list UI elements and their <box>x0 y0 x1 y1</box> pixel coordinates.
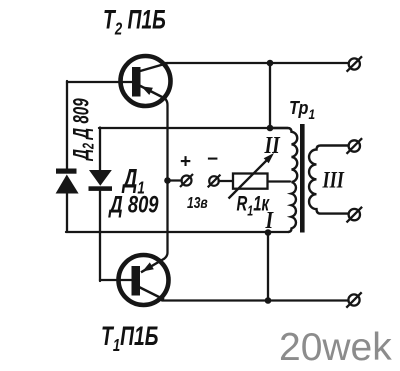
terminal: collector T1 output (bottom right) <box>346 292 361 307</box>
junction: emitter bus / + terminal <box>164 177 171 184</box>
svg-text:13в: 13в <box>187 194 208 212</box>
svg-text:III: III <box>322 167 345 194</box>
svg-text:Д 809: Д 809 <box>108 190 159 218</box>
junction: bottom rail / drop x=268 <box>265 297 272 304</box>
wire: T1 base lead <box>100 279 132 281</box>
junction: rail y=232 / drop x=268 <box>265 229 272 236</box>
transistor T2 (П1Б, PNP) <box>121 56 171 106</box>
wire: bottom rail from T1 collector to output terminal <box>162 299 349 301</box>
transformer Tr1 core <box>300 124 305 233</box>
svg-text:20wek: 20wek <box>279 326 392 369</box>
wire: D1 cathode top lead <box>99 128 101 171</box>
wire: left vertical (D2 cathode lead) <box>66 81 68 169</box>
svg-text:+: + <box>180 152 191 173</box>
junction: winding II top lead <box>267 125 274 132</box>
zener diode D1 (Д809) <box>89 170 113 191</box>
svg-text:II: II <box>264 131 282 158</box>
resistor R1 1k (adjustable) <box>229 153 275 199</box>
wire: top rail from T2 collector to output terminal <box>165 62 349 64</box>
wire: R1 to primary centre tap <box>268 180 291 182</box>
wire: bottom common rail y=232 <box>66 231 288 233</box>
wire: horizontal line y=128 from D1 to winding II <box>99 127 288 129</box>
terminal: + 13V input <box>180 174 193 187</box>
wire: vertical drop x=270 from top rail to winding II <box>269 62 271 129</box>
terminal: collector T2 output (top right) <box>347 56 362 71</box>
wire: T2 base to diode D2 column <box>67 81 132 83</box>
junction: top rail / winding II drop <box>267 60 274 67</box>
wire: D2 anode lead down to common rail <box>66 193 68 231</box>
svg-text:Т1П1Б: Т1П1Б <box>101 321 158 356</box>
wire: D1 anode lead down <box>99 191 101 282</box>
transformer Tr1 primary windings II and I <box>270 128 297 232</box>
terminal: - 13V input <box>208 175 221 188</box>
svg-text:Т2 П1Б: Т2 П1Б <box>103 5 166 40</box>
svg-text:Д2 Д 809: Д2 Д 809 <box>70 98 97 162</box>
terminal: winding III top <box>347 138 363 154</box>
transformer Tr1 secondary winding III <box>309 146 348 214</box>
svg-text:I: I <box>265 206 275 233</box>
transistor T1 (П1Б, PNP) <box>119 255 169 305</box>
wire: emitter bus tap to + terminal <box>168 179 182 181</box>
wire: - terminal to R1 <box>219 180 233 182</box>
wire: vertical drop x=268 winding I bottom to bottom rail <box>267 232 269 301</box>
svg-text:−: − <box>207 149 218 170</box>
terminal: winding III bottom <box>347 207 363 223</box>
zener diode D2 (Д809) <box>56 169 79 194</box>
wire: emitter bus T2 to T1 <box>165 99 168 259</box>
